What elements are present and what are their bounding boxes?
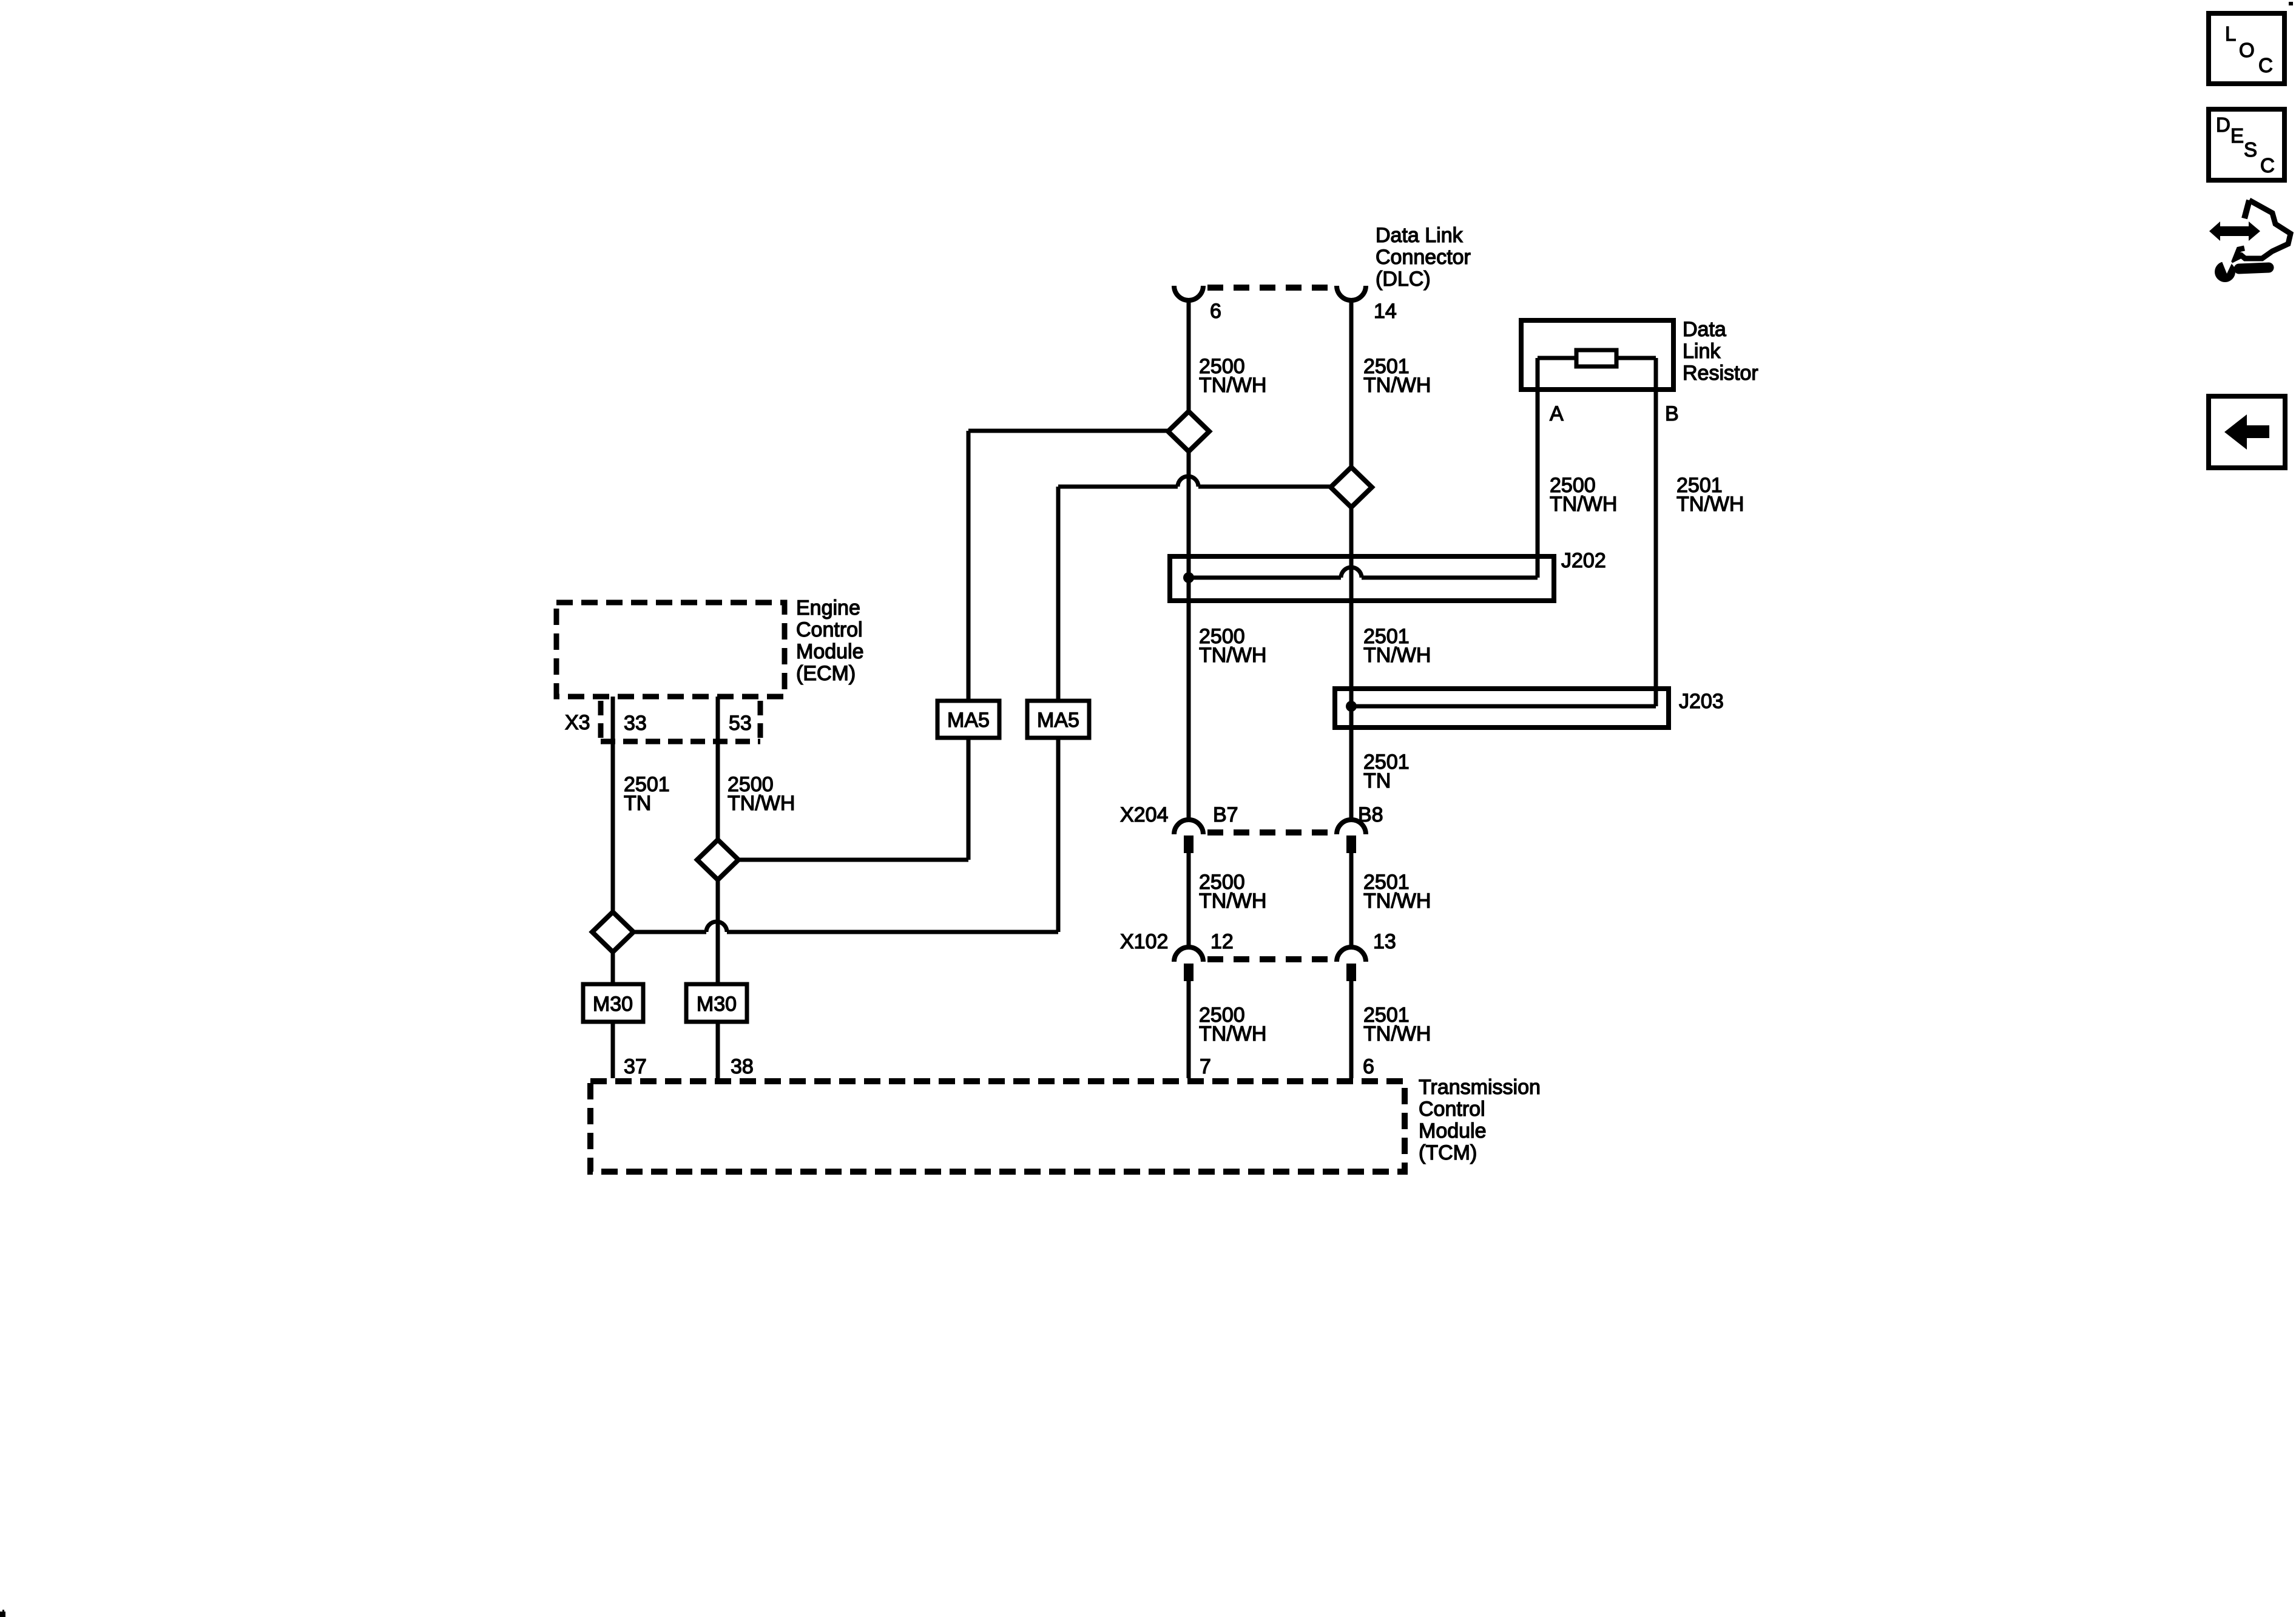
- wire riser through MA5 fuse 2: [1056, 487, 1061, 932]
- DLC connector dashed body line: [1207, 285, 1332, 291]
- X102 connector dashed line: [1207, 956, 1332, 962]
- svg-text:Resistor: Resistor: [1683, 362, 1758, 385]
- svg-text:TN: TN: [624, 792, 651, 815]
- svg-text:O: O: [2239, 39, 2255, 61]
- svg-text:(TCM): (TCM): [1419, 1141, 1477, 1164]
- wire 2500 TN/WH from resistor pin A down to J202: [1536, 358, 1540, 578]
- wire from splice S4 through M30 fuse 1 to TCM pin 37: [611, 952, 615, 1078]
- svg-text:TN/WH: TN/WH: [1199, 1022, 1266, 1045]
- svg-text:L: L: [2225, 22, 2236, 45]
- svg-text:TN/WH: TN/WH: [1363, 890, 1431, 913]
- DLC connector pin 14 terminal arc: [1337, 286, 1366, 300]
- svg-text:TN: TN: [1363, 769, 1391, 792]
- fuse M30 #1 box: [583, 984, 643, 1022]
- resistor internal jumper wire: [1538, 356, 1656, 360]
- DESC icon box: [2209, 109, 2284, 180]
- svg-text:6: 6: [1363, 1055, 1374, 1078]
- svg-text:33: 33: [624, 712, 647, 735]
- svg-text:TN/WH: TN/WH: [1363, 644, 1431, 667]
- svg-text:Link: Link: [1683, 340, 1721, 363]
- svg-text:J202: J202: [1561, 549, 1606, 572]
- svg-text:TN/WH: TN/WH: [1199, 890, 1266, 913]
- wire branch from splice S2 left with hop over wire 2500: [1058, 485, 1331, 489]
- svg-text:Module: Module: [1419, 1119, 1487, 1143]
- svg-text:B8: B8: [1358, 803, 1383, 826]
- wire branch from splice S1 left to corner above MA5 fuse 1: [968, 429, 1168, 433]
- svg-text:TN/WH: TN/WH: [1199, 374, 1266, 397]
- svg-text:12: 12: [1210, 930, 1234, 953]
- fuse MA5 #2 box: [1027, 701, 1089, 738]
- back arrow icon box: [2209, 396, 2285, 468]
- svg-text:13: 13: [1373, 930, 1396, 953]
- svg-text:A: A: [1550, 402, 1564, 425]
- svg-text:TN/WH: TN/WH: [1199, 644, 1266, 667]
- X204 connector dashed line: [1207, 829, 1332, 836]
- svg-text:Data Link: Data Link: [1376, 224, 1464, 247]
- svg-text:TN/WH: TN/WH: [1550, 493, 1617, 516]
- wrench head: [2215, 262, 2235, 282]
- svg-text:MA5: MA5: [1037, 709, 1079, 732]
- wire from splice S3 through M30 fuse 2 to TCM pin 38: [716, 880, 720, 1078]
- svg-text:M30: M30: [593, 993, 633, 1016]
- wire 2501 from X102 to TCM pin 6: [1349, 981, 1354, 1078]
- svg-text:14: 14: [1374, 300, 1397, 323]
- svg-text:TN/WH: TN/WH: [1363, 1022, 1431, 1045]
- svg-text:M30: M30: [697, 993, 737, 1016]
- wrench handle: [2239, 268, 2269, 269]
- X102 pin 12 male blade: [1184, 964, 1194, 981]
- svg-text:38: 38: [731, 1055, 754, 1078]
- connector-view icon housing outline: [2235, 200, 2291, 258]
- X204 connector terminal dome B7: [1174, 820, 1203, 834]
- splice S1 on wire 2500: [1168, 411, 1209, 451]
- X204 connector terminal dome B8: [1337, 820, 1366, 834]
- svg-text:X204: X204: [1120, 803, 1168, 826]
- splice S2 on wire 2501: [1331, 467, 1372, 507]
- connector-view icon stub: [2244, 200, 2249, 218]
- svg-text:C: C: [2258, 54, 2273, 76]
- svg-text:53: 53: [729, 712, 752, 735]
- resistor element box: [1576, 350, 1616, 366]
- svg-text:Transmission: Transmission: [1419, 1076, 1541, 1099]
- svg-text:TN/WH: TN/WH: [728, 792, 795, 815]
- wire 2501 between X204 and X102: [1349, 853, 1354, 947]
- J203 internal bus wire: [1351, 704, 1656, 709]
- junction dot J203 on wire 2501: [1346, 701, 1357, 712]
- splice S4 on ECM pin 33 wire: [592, 912, 633, 952]
- X102 pin 13 male blade: [1346, 964, 1356, 981]
- svg-text:Module: Module: [796, 640, 864, 663]
- svg-text:Data: Data: [1683, 318, 1726, 341]
- svg-text:TN/WH: TN/WH: [1363, 374, 1431, 397]
- J202 internal bus wire with hop over wire 2501: [1189, 576, 1538, 580]
- svg-text:(ECM): (ECM): [796, 662, 856, 685]
- wire 2500 from splice S1 down through J202 to X204 pin B7: [1187, 451, 1191, 820]
- X204 pin B8 male blade: [1346, 836, 1356, 853]
- wire 2501 TN from ECM pin 33 down to splice S4: [611, 697, 615, 913]
- svg-text:Control: Control: [796, 618, 863, 641]
- wire 2501 from splice S2 down through J202 and J203 to X204 pin B8: [1349, 507, 1354, 820]
- ECM dashed module box: [556, 603, 785, 697]
- wire 2500 TN/WH from ECM pin 53 down to splice S3: [716, 697, 720, 840]
- svg-text:B: B: [1665, 402, 1679, 425]
- junction dot J202 on wire 2500: [1183, 572, 1194, 583]
- fuse M30 #2 box: [686, 984, 747, 1022]
- hop arc over wire 2500 at (1958,802): [1178, 476, 1198, 487]
- svg-text:X102: X102: [1120, 930, 1168, 953]
- TCM dashed module box: [590, 1081, 1405, 1172]
- page corner mark bottom left: [0, 1610, 5, 1617]
- wire 2501 TN/WH from resistor pin B down to J203: [1654, 358, 1658, 706]
- X102 connector terminal dome 13: [1337, 947, 1366, 962]
- wire from MA5 fuse 1 riser right to splice S3 with hop: [738, 858, 968, 862]
- page corner dot top right: [2289, 2, 2293, 5]
- svg-text:Engine: Engine: [796, 596, 860, 619]
- DLC connector pin 6 terminal arc: [1174, 286, 1203, 300]
- svg-text:J203: J203: [1679, 690, 1724, 713]
- X204 pin B7 male blade: [1184, 836, 1194, 853]
- svg-text:37: 37: [624, 1055, 647, 1078]
- svg-text:E: E: [2230, 124, 2244, 147]
- back arrow glyph: [2224, 414, 2269, 450]
- svg-text:7: 7: [1200, 1055, 1211, 1078]
- svg-text:D: D: [2216, 113, 2230, 136]
- fuse MA5 #1 box: [937, 701, 999, 738]
- wire riser through MA5 fuse 1: [967, 431, 971, 860]
- wire 2500 between X204 and X102: [1187, 853, 1191, 947]
- hop arc over wire 2501 inside J202: [1341, 567, 1362, 578]
- splice pack J202 box: [1170, 556, 1554, 601]
- splice S3 on ECM pin 53 wire: [697, 840, 738, 880]
- wrench jaw notch: [2221, 258, 2232, 274]
- svg-text:TN/WH: TN/WH: [1676, 493, 1744, 516]
- wire 2500 from X102 to TCM pin 7: [1187, 981, 1191, 1078]
- svg-text:S: S: [2244, 138, 2257, 161]
- wire 2500 from DLC pin 6 down to splice S1: [1187, 302, 1191, 411]
- svg-text:(DLC): (DLC): [1376, 268, 1431, 291]
- wire 2501 from DLC pin 14 down to splice S2: [1349, 302, 1354, 468]
- svg-text:6: 6: [1210, 300, 1221, 323]
- data link resistor outer box: [1521, 320, 1673, 390]
- ECM connector X3 dashed box: [601, 701, 760, 741]
- svg-text:C: C: [2260, 154, 2275, 177]
- svg-text:Connector: Connector: [1376, 246, 1471, 269]
- svg-text:X3: X3: [565, 711, 590, 734]
- svg-text:MA5: MA5: [947, 709, 990, 732]
- connector-view icon double arrow: [2209, 221, 2260, 241]
- splice pack J203 box: [1335, 689, 1669, 727]
- wire from MA5 fuse 2 riser left to splice S4 with hop over ECM pin 53 wire: [633, 930, 1058, 934]
- svg-text:Control: Control: [1419, 1098, 1485, 1121]
- hop arc over ECM pin 53 wire at (1181,1536): [706, 922, 727, 932]
- X102 connector terminal dome 12: [1174, 947, 1203, 962]
- LOC icon box: [2209, 13, 2284, 84]
- svg-text:B7: B7: [1213, 803, 1238, 826]
